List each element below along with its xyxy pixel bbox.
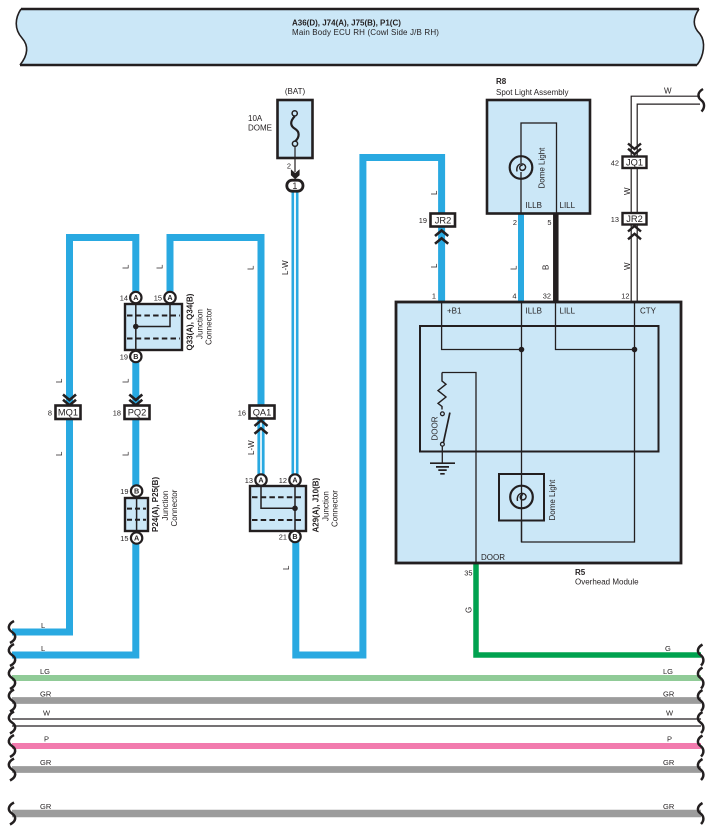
svg-text:Connector: Connector bbox=[205, 308, 214, 345]
connector QA1 bbox=[238, 406, 275, 434]
svg-text:19: 19 bbox=[120, 487, 128, 496]
label L wire MQ1 upper bbox=[55, 378, 64, 383]
resistor R5 door bbox=[438, 373, 446, 410]
junction connector P24(A) P25(B) bbox=[125, 477, 179, 532]
wire L P24 pin15A down to row2 bbox=[12, 538, 136, 655]
svg-text:P: P bbox=[667, 735, 672, 744]
svg-text:PQ2: PQ2 bbox=[128, 408, 147, 418]
svg-text:R5: R5 bbox=[575, 568, 586, 577]
wire L R8 ILLB to R5 bbox=[518, 213, 524, 302]
svg-text:18: 18 bbox=[113, 409, 121, 418]
curly breaks right edge bbox=[698, 645, 703, 825]
switch DOOR bbox=[431, 412, 450, 463]
label W wire top bbox=[664, 87, 672, 96]
svg-text:Main Body ECU RH (Cowl Side J/: Main Body ECU RH (Cowl Side J/B RH) bbox=[292, 28, 439, 37]
label G wire right bbox=[665, 644, 671, 653]
label L wire QA1 upper bbox=[247, 265, 256, 270]
svg-text:Connector: Connector bbox=[170, 489, 179, 526]
svg-text:B: B bbox=[542, 265, 551, 270]
svg-text:13: 13 bbox=[611, 215, 619, 224]
svg-text:DOOR: DOOR bbox=[431, 416, 440, 440]
svg-text:10A: 10A bbox=[248, 114, 263, 123]
svg-text:Dome Light: Dome Light bbox=[548, 479, 557, 521]
svg-text:+B1: +B1 bbox=[447, 307, 462, 316]
svg-text:GR: GR bbox=[40, 758, 52, 767]
wire L row2 left stub label bbox=[41, 621, 45, 653]
wire L-W QA1 to A29 pin13A bbox=[259, 419, 263, 477]
connector JR2 19 bbox=[419, 214, 455, 244]
svg-text:L: L bbox=[156, 264, 165, 269]
svg-text:Spot Light Assembly: Spot Light Assembly bbox=[496, 88, 568, 97]
svg-text:Junction: Junction bbox=[322, 491, 331, 521]
label L-W wire QA1 lower bbox=[247, 440, 256, 455]
overhead module R5 bbox=[396, 302, 681, 587]
wire P row6 bbox=[12, 735, 701, 747]
svg-text:21: 21 bbox=[279, 533, 287, 542]
svg-text:Overhead Module: Overhead Module bbox=[575, 578, 639, 587]
svg-text:JQ1: JQ1 bbox=[626, 158, 643, 168]
svg-text:MQ1: MQ1 bbox=[58, 408, 78, 418]
node junction CTY bbox=[632, 347, 638, 353]
pin 13A A29 bbox=[245, 474, 267, 485]
svg-text:JR2: JR2 bbox=[626, 214, 643, 224]
wire B R8 LILL to R5 bbox=[553, 213, 559, 302]
svg-text:B: B bbox=[292, 532, 297, 541]
svg-text:L: L bbox=[282, 565, 291, 570]
svg-text:2: 2 bbox=[513, 218, 517, 227]
svg-text:8: 8 bbox=[48, 409, 52, 418]
pin 4 ILLB bbox=[512, 292, 516, 301]
junction connector A29(A) J10(B) bbox=[250, 477, 340, 532]
svg-text:L: L bbox=[41, 644, 45, 653]
svg-text:13: 13 bbox=[245, 476, 253, 485]
svg-text:A: A bbox=[167, 293, 172, 302]
pin 14A Q33 bbox=[120, 292, 142, 303]
svg-text:L: L bbox=[430, 263, 439, 268]
svg-text:16: 16 bbox=[238, 409, 246, 418]
node 1 oval bbox=[287, 180, 303, 191]
svg-text:L: L bbox=[41, 621, 45, 630]
svg-text:12: 12 bbox=[279, 476, 287, 485]
wire GR row7 bbox=[12, 758, 701, 770]
svg-text:A29(A), J10(B): A29(A), J10(B) bbox=[312, 477, 321, 532]
svg-text:L: L bbox=[55, 451, 64, 456]
label L wire 15A bbox=[156, 264, 165, 269]
wire L A29 pin21B down around to JR2 and R5 +B1 bbox=[296, 158, 442, 656]
svg-text:15: 15 bbox=[120, 534, 128, 543]
pin 15A Q33 bbox=[154, 292, 176, 303]
connector MQ1 bbox=[48, 395, 81, 420]
svg-text:L: L bbox=[55, 378, 64, 383]
svg-text:GR: GR bbox=[663, 690, 675, 699]
svg-text:32: 32 bbox=[543, 292, 551, 301]
junction connector Q33(A) Q34(B) bbox=[125, 293, 214, 350]
label L wire 14A bbox=[121, 264, 130, 269]
svg-text:L-W: L-W bbox=[247, 440, 256, 455]
svg-text:W: W bbox=[623, 262, 632, 270]
label W wire JQ1-JR2 bbox=[623, 187, 632, 195]
pin 32 LILL bbox=[543, 292, 551, 301]
dome light box R5 bbox=[499, 474, 557, 521]
pin 21B J10 bbox=[279, 531, 301, 542]
wire DOOR switch to pin35 bbox=[442, 373, 476, 564]
svg-text:B: B bbox=[134, 487, 139, 496]
wire L Q33 pin19B down through PQ2 to P24 pin19B bbox=[132, 357, 139, 490]
label L wire JR2 upper bbox=[430, 190, 439, 195]
svg-text:W: W bbox=[666, 709, 674, 718]
pin 2 R8 ILLB bbox=[513, 218, 517, 227]
wire L row1 from MQ1 branch bbox=[12, 238, 136, 633]
svg-text:1: 1 bbox=[292, 181, 297, 191]
svg-text:19: 19 bbox=[419, 216, 427, 225]
label L wire PQ2 upper bbox=[121, 378, 130, 383]
svg-text:(BAT): (BAT) bbox=[285, 87, 306, 96]
svg-text:1: 1 bbox=[432, 292, 436, 301]
wire L-W fuse to A29 pin12A bbox=[293, 191, 297, 477]
svg-text:CTY: CTY bbox=[640, 307, 657, 316]
svg-text:P24(A), P25(B): P24(A), P25(B) bbox=[151, 477, 160, 532]
svg-text:LILL: LILL bbox=[560, 201, 576, 210]
svg-text:DOME: DOME bbox=[248, 124, 272, 133]
svg-text:L-W: L-W bbox=[281, 260, 290, 275]
svg-text:A36(D), J74(A), J75(B), P1(C): A36(D), J74(A), J75(B), P1(C) bbox=[292, 19, 401, 28]
label B wire LILL bbox=[542, 265, 551, 270]
node junction ILLB bbox=[519, 347, 525, 353]
pin 12A A29 bbox=[279, 474, 301, 485]
connector JR2 13 bbox=[611, 213, 647, 239]
ground R5 bbox=[430, 463, 455, 474]
wire GR row4 bbox=[12, 690, 701, 701]
svg-text:2: 2 bbox=[287, 162, 291, 171]
svg-text:Dome Light: Dome Light bbox=[538, 147, 547, 189]
inner logic box R5 bbox=[420, 326, 659, 452]
svg-text:12: 12 bbox=[621, 292, 629, 301]
svg-text:B: B bbox=[133, 352, 138, 361]
svg-text:A: A bbox=[258, 476, 263, 485]
svg-text:A: A bbox=[134, 534, 139, 543]
svg-text:GR: GR bbox=[663, 758, 675, 767]
svg-text:LG: LG bbox=[40, 667, 50, 676]
label W wire JR2 lower bbox=[623, 262, 632, 270]
svg-text:JR2: JR2 bbox=[435, 216, 452, 226]
connector JQ1 42 bbox=[611, 144, 647, 169]
svg-text:42: 42 bbox=[611, 159, 619, 168]
svg-text:L: L bbox=[121, 264, 130, 269]
wire GR row8 bbox=[12, 802, 701, 814]
pin 15A P24 bbox=[120, 532, 142, 543]
svg-text:W: W bbox=[664, 87, 672, 96]
arrow below fuse bbox=[291, 169, 300, 179]
svg-text:Q33(A), Q34(B): Q33(A), Q34(B) bbox=[186, 293, 195, 350]
svg-text:19: 19 bbox=[120, 353, 128, 362]
svg-text:W: W bbox=[43, 709, 51, 718]
label L wire MQ1 lower bbox=[55, 451, 64, 456]
pin 19B P25 bbox=[120, 485, 142, 496]
svg-text:L: L bbox=[121, 451, 130, 456]
svg-text:A: A bbox=[133, 293, 138, 302]
label G wire DOOR bbox=[465, 607, 474, 613]
svg-text:4: 4 bbox=[512, 292, 516, 301]
wire W from top right to R5 CTY bbox=[631, 96, 700, 302]
svg-text:LILL: LILL bbox=[560, 307, 576, 316]
label L wire PQ2 lower bbox=[121, 451, 130, 456]
banner Main Body ECU RH bbox=[16, 9, 703, 65]
pin 19B Q34 bbox=[120, 351, 142, 362]
pin 5 R8 LILL bbox=[547, 218, 551, 227]
svg-text:DOOR: DOOR bbox=[481, 553, 505, 562]
svg-text:GR: GR bbox=[663, 802, 675, 811]
svg-text:A: A bbox=[292, 476, 297, 485]
svg-text:ILLB: ILLB bbox=[526, 307, 542, 316]
label L wire JR2 lower bbox=[430, 263, 439, 268]
label L-W wire fuse bbox=[281, 260, 290, 275]
wire ILLB internal bbox=[521, 302, 523, 542]
lamp R8 dome light bbox=[510, 147, 547, 189]
svg-text:G: G bbox=[465, 607, 474, 613]
svg-text:QA1: QA1 bbox=[253, 408, 272, 418]
wire W row5 bbox=[12, 709, 701, 727]
connector PQ2 bbox=[113, 395, 150, 420]
wire LG row3 bbox=[12, 667, 701, 678]
svg-text:R8: R8 bbox=[496, 77, 507, 86]
wire L loop2 to Q33 pin15A and down through QA1 bbox=[170, 238, 261, 419]
svg-text:Connector: Connector bbox=[331, 490, 340, 527]
svg-text:GR: GR bbox=[40, 802, 52, 811]
svg-text:5: 5 bbox=[547, 218, 551, 227]
svg-text:Junction: Junction bbox=[161, 491, 170, 521]
curly breaks left edge bbox=[9, 621, 15, 825]
svg-text:P: P bbox=[44, 735, 49, 744]
svg-text:L: L bbox=[430, 190, 439, 195]
pin 12 CTY bbox=[621, 292, 629, 301]
label L wire 21B lower bbox=[282, 565, 291, 570]
label DOOR pin35 bbox=[464, 553, 505, 578]
wire CTY internal bbox=[522, 302, 635, 542]
spot light assembly R8 bbox=[487, 77, 590, 214]
pin 1 +B1 bbox=[432, 292, 436, 301]
curly break W wire top right bbox=[698, 89, 704, 112]
svg-text:LG: LG bbox=[663, 667, 673, 676]
label L wire ILLB bbox=[510, 265, 519, 270]
svg-text:GR: GR bbox=[40, 690, 52, 699]
svg-text:Junction: Junction bbox=[196, 309, 205, 339]
svg-text:L: L bbox=[510, 265, 519, 270]
svg-text:ILLB: ILLB bbox=[526, 201, 542, 210]
fuse 10A DOME bbox=[248, 87, 313, 172]
svg-text:15: 15 bbox=[154, 294, 162, 303]
svg-text:L: L bbox=[247, 265, 256, 270]
svg-text:W: W bbox=[623, 187, 632, 195]
wire LILL internal bbox=[556, 302, 635, 350]
wire G R5 DOOR pin35 to right bbox=[476, 563, 701, 655]
svg-text:G: G bbox=[665, 644, 671, 653]
svg-text:L: L bbox=[121, 378, 130, 383]
wire +B1 internal bbox=[442, 302, 522, 350]
svg-text:14: 14 bbox=[120, 294, 128, 303]
svg-text:35: 35 bbox=[464, 569, 472, 578]
